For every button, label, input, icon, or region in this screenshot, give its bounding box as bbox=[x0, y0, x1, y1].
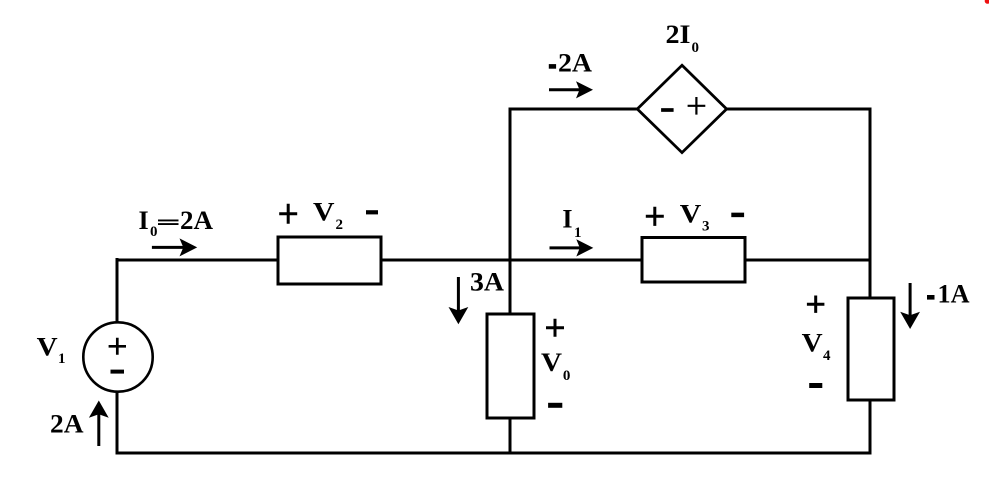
svg-text:0: 0 bbox=[563, 368, 571, 384]
svg-text:3A: 3A bbox=[470, 268, 504, 297]
svg-text:0: 0 bbox=[692, 40, 700, 56]
svg-text:V: V bbox=[680, 200, 702, 229]
svg-text:1: 1 bbox=[58, 351, 66, 367]
svg-text:V: V bbox=[313, 197, 335, 226]
svg-text:4: 4 bbox=[823, 348, 831, 364]
svg-text:2A: 2A bbox=[558, 48, 592, 77]
svg-text:I: I bbox=[562, 205, 572, 234]
svg-text:1: 1 bbox=[574, 225, 582, 241]
svg-text:2I: 2I bbox=[666, 20, 691, 49]
svg-text:I: I bbox=[139, 206, 149, 235]
svg-text:1A: 1A bbox=[938, 280, 970, 309]
svg-text:V: V bbox=[541, 348, 562, 377]
svg-text:V: V bbox=[37, 333, 58, 362]
svg-text:2: 2 bbox=[336, 217, 344, 233]
svg-text:V: V bbox=[802, 329, 823, 358]
svg-text:2A: 2A bbox=[50, 410, 84, 439]
svg-text:3: 3 bbox=[702, 219, 710, 235]
svg-text:2A: 2A bbox=[180, 206, 213, 235]
svg-text:0: 0 bbox=[150, 224, 158, 240]
